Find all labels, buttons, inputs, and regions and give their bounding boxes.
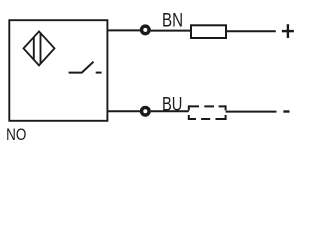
wire BU terminal to dashed load <box>151 110 189 112</box>
inductive sensor diamond symbol <box>24 31 55 65</box>
wire BN terminal to load resistor <box>151 30 191 32</box>
NO switch right terminal dash <box>96 72 102 74</box>
sensor face bar 2 <box>40 33 42 63</box>
BU terminal circle <box>142 107 150 115</box>
BN terminal circle <box>142 26 150 34</box>
sensor body box <box>9 20 107 121</box>
svg-text:BN: BN <box>162 11 183 32</box>
load resistor R <box>191 25 226 38</box>
svg-text:NO: NO <box>6 126 26 144</box>
minus terminal symbol <box>283 110 289 112</box>
wire load resistor to plus <box>226 30 276 32</box>
sensor face bar 1 <box>33 37 35 59</box>
wire box to BN terminal <box>107 29 140 31</box>
dashed load box <box>189 105 226 120</box>
wire dashed load to minus <box>226 111 277 113</box>
wire box to BU terminal <box>107 110 140 112</box>
svg-text:BU: BU <box>162 95 182 116</box>
plus terminal symbol <box>282 24 294 38</box>
NO switch contact Q <box>69 62 94 73</box>
